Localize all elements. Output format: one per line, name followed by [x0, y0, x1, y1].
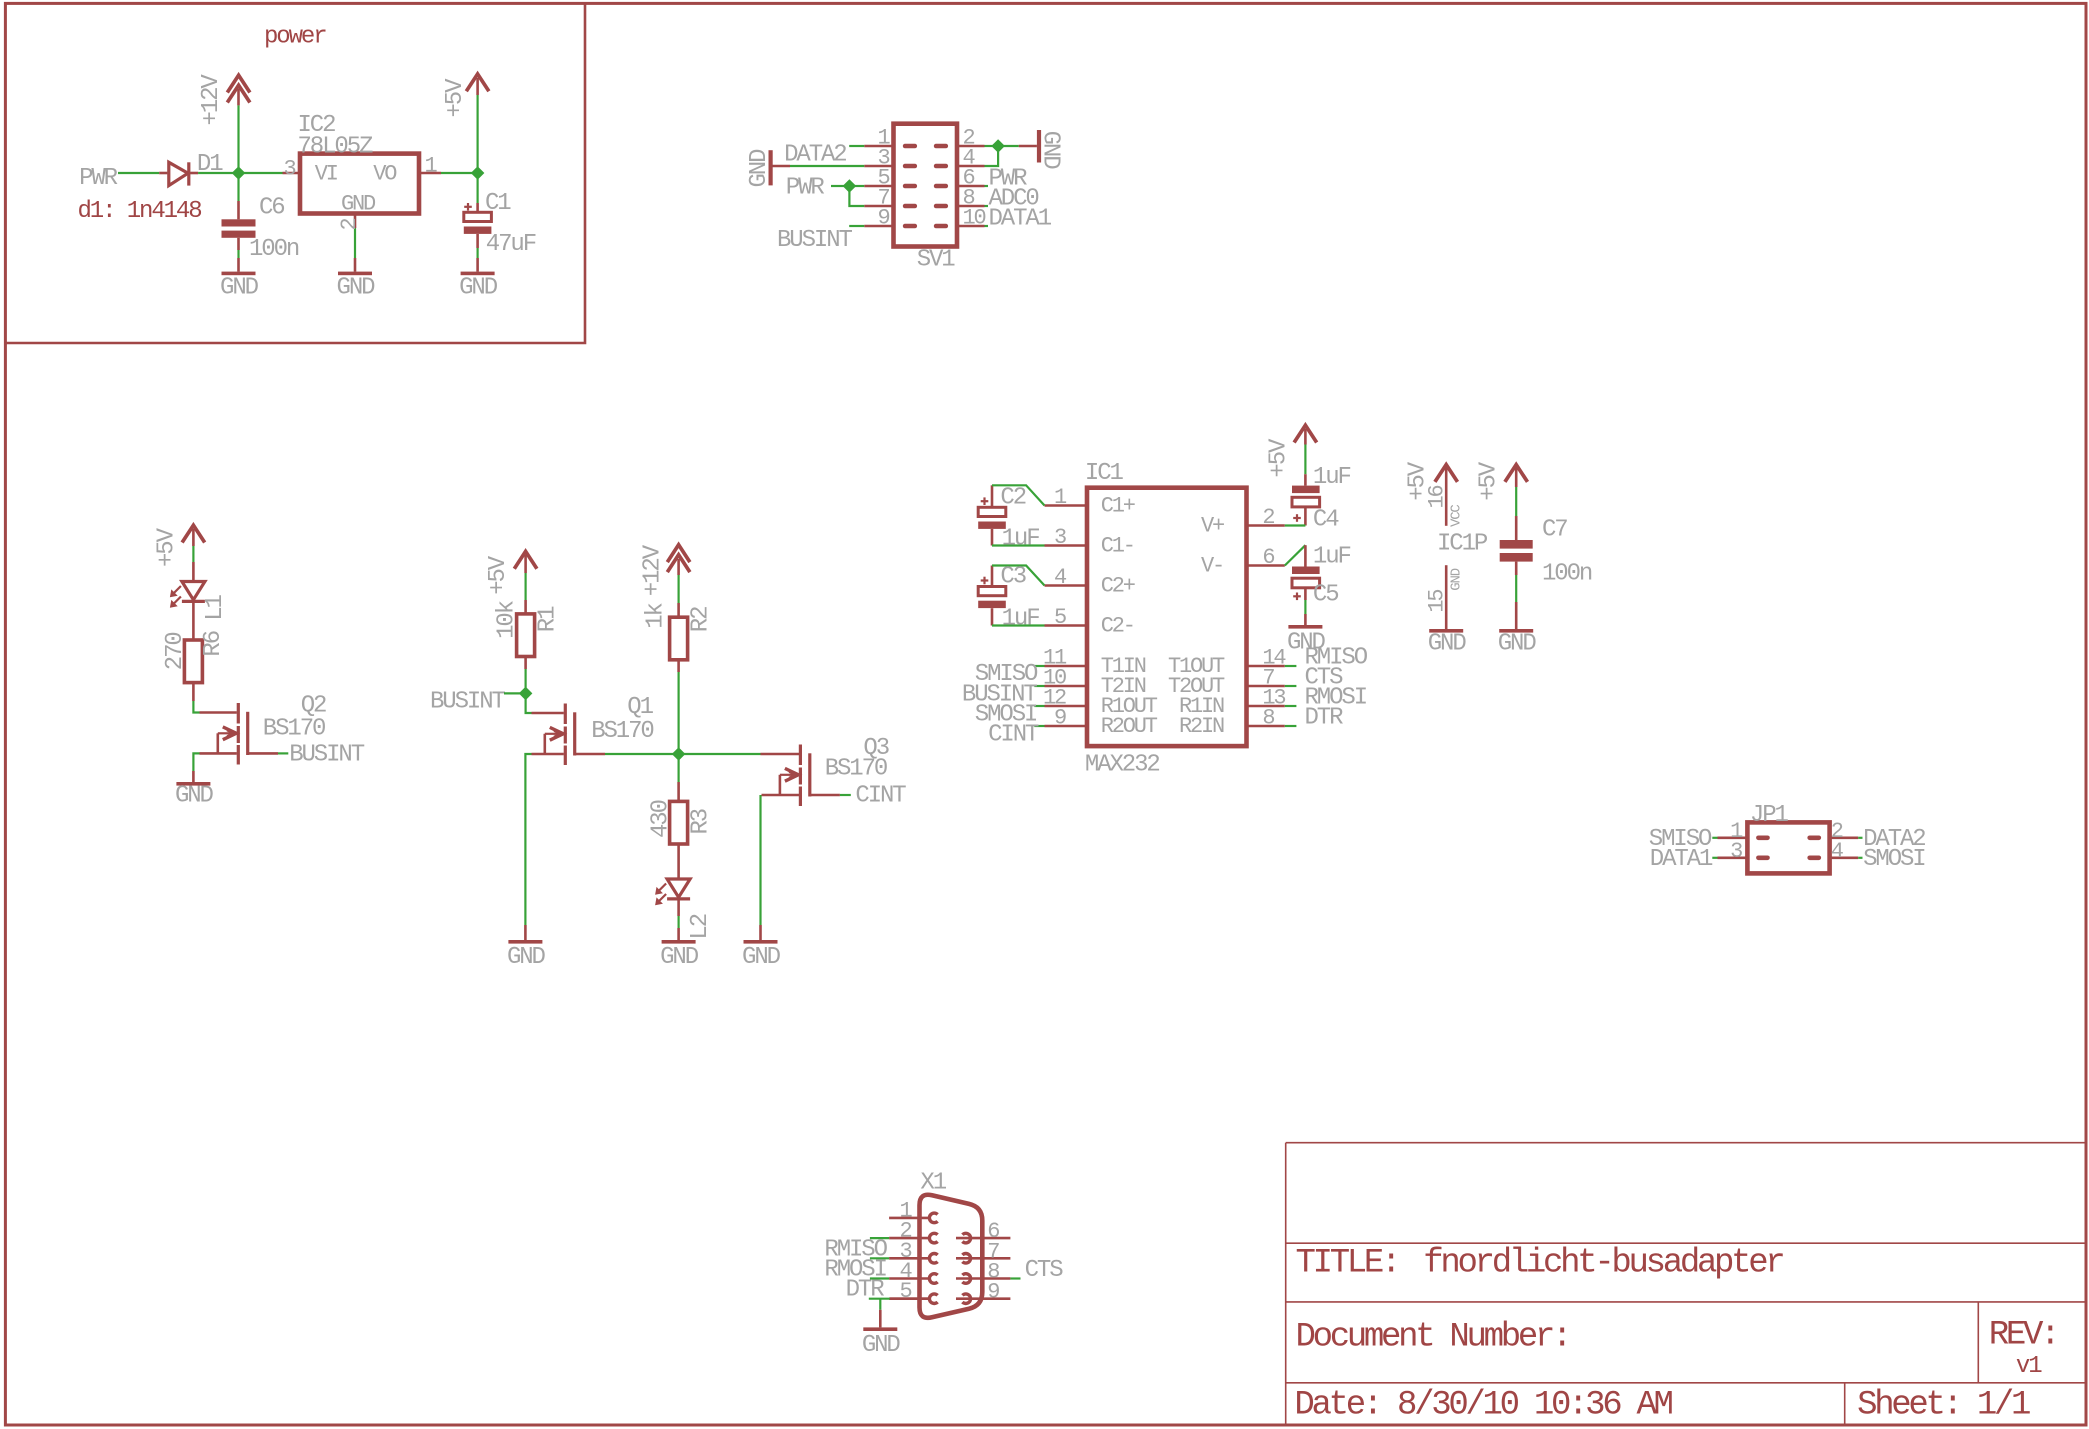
SV1 right pin stubs 2 4 6 8 10	[957, 145, 985, 148]
svg-text:CINT: CINT	[855, 783, 906, 810]
svg-text:IC1: IC1	[1085, 460, 1124, 487]
wire junction down to R3	[677, 759, 679, 782]
svg-text:+12V: +12V	[198, 74, 225, 126]
connector JP1 box	[1747, 822, 1829, 873]
capacitor C2	[981, 500, 989, 502]
op-amp IC2 78L05Z regulator box	[300, 154, 419, 214]
X1 right pin stubs 6-9	[956, 1237, 1010, 1240]
svg-text:GND: GND	[1448, 568, 1464, 590]
Q2 gate wire to BUSINT	[248, 752, 278, 755]
JP1 right stubs pins 2 4	[1830, 836, 1859, 839]
svg-text:9: 9	[1054, 706, 1066, 731]
svg-text:6: 6	[1262, 545, 1274, 570]
wire R2 to junction	[677, 660, 680, 672]
X1 left pin stubs 1-5	[889, 1217, 928, 1220]
wire PWR to junction	[831, 185, 845, 187]
svg-text:BS170: BS170	[591, 718, 653, 745]
svg-text:GND: GND	[1498, 631, 1537, 658]
power section box	[5, 3, 585, 343]
net PWR right	[985, 185, 989, 187]
X1 pin5 wire to GND	[869, 1298, 890, 1300]
svg-text:9: 9	[877, 206, 889, 231]
ground below Q2	[176, 782, 210, 786]
wire L1 to R6	[192, 602, 195, 640]
IC1 right pin stubs	[1247, 524, 1285, 527]
svg-text:3: 3	[1054, 525, 1066, 550]
svg-text:R2OUT: R2OUT	[1101, 714, 1158, 739]
svg-text:3: 3	[1730, 839, 1742, 864]
ground right of SV1	[1019, 145, 1037, 148]
net DATA1 right	[985, 225, 989, 227]
svg-text:10: 10	[963, 206, 986, 231]
svg-text:C1+: C1+	[1101, 494, 1135, 519]
capacitor C7 100n	[1500, 540, 1533, 549]
net ADC0	[985, 205, 989, 207]
connector SV1 box	[894, 124, 958, 247]
wire junction to Q3	[683, 753, 760, 755]
wire junction down to pin7	[849, 191, 864, 206]
ground below C6	[237, 250, 239, 258]
svg-text:GND: GND	[459, 275, 498, 302]
X1 right contacts	[962, 1233, 970, 1243]
svg-text:MAX232: MAX232	[1085, 752, 1160, 779]
X1 left contacts	[929, 1213, 937, 1223]
svg-text:TITLE:: TITLE:	[1296, 1245, 1399, 1283]
ground below C7	[1499, 629, 1533, 633]
svg-text:GND: GND	[337, 275, 376, 302]
svg-text:BUSINT: BUSINT	[430, 688, 506, 715]
title block frame	[1285, 1143, 1287, 1424]
supply +5V at L1	[182, 525, 205, 542]
svg-text:+5V: +5V	[1265, 438, 1292, 478]
svg-text:5: 5	[1054, 605, 1066, 630]
svg-text:CINT: CINT	[988, 722, 1039, 749]
svg-text:R6: R6	[200, 631, 227, 656]
svg-text:CTS: CTS	[1025, 1257, 1064, 1284]
capacitor C5	[1304, 545, 1307, 566]
wire BUSINT to pin9	[849, 225, 864, 227]
pin 1	[419, 172, 441, 175]
ground below Q3	[744, 940, 778, 944]
svg-text:GND: GND	[742, 944, 781, 971]
svg-text:100n: 100n	[249, 236, 299, 263]
svg-text:8: 8	[1262, 706, 1274, 731]
wire junction to Q1 drain	[526, 698, 532, 713]
svg-text:Document Number:: Document Number:	[1296, 1318, 1570, 1356]
ground below L2	[662, 940, 696, 944]
svg-text:270: 270	[162, 633, 189, 671]
svg-text:BS170: BS170	[263, 715, 325, 742]
svg-text:BS170: BS170	[825, 756, 887, 783]
svg-text:JP1: JP1	[1750, 802, 1789, 829]
svg-text:10k: 10k	[493, 600, 520, 639]
svg-text:BUSINT: BUSINT	[777, 227, 853, 254]
junction +5V node	[471, 166, 485, 180]
resistor R1 10k	[517, 614, 535, 657]
svg-text:REV:: REV:	[1989, 1316, 2057, 1354]
wire L2 to GND	[677, 899, 680, 916]
supply +5V power	[476, 78, 479, 95]
JP1 green wire tips	[1712, 837, 1717, 839]
wire pin 6 diagonal to C5	[1285, 545, 1306, 565]
diode D1	[159, 172, 167, 175]
svg-text:SV1: SV1	[917, 247, 956, 274]
supply +5V at C4	[1294, 425, 1317, 442]
IC1P GND pin 15	[1445, 565, 1448, 629]
svg-text:VCC: VCC	[1448, 505, 1464, 527]
net CTS at X1	[1010, 1277, 1020, 1279]
svg-text:GND: GND	[507, 944, 546, 971]
IC1P VCC pin 16 with +5V	[1435, 465, 1458, 482]
wire node to IC2 pin 3	[243, 172, 283, 174]
svg-text:5: 5	[899, 1279, 911, 1304]
svg-text:DTR: DTR	[1305, 705, 1344, 732]
svg-text:C2+: C2+	[1101, 574, 1135, 599]
svg-text:PWR: PWR	[79, 165, 118, 192]
svg-text:GND: GND	[1428, 631, 1467, 658]
wire R1 to junction	[524, 657, 527, 670]
wire BUSINT to junction	[504, 692, 521, 694]
svg-text:X1: X1	[920, 1170, 946, 1197]
svg-text:GND: GND	[1036, 131, 1063, 170]
resistor R6 270	[184, 640, 202, 683]
SV1 pin pads	[903, 144, 917, 149]
junction center node	[672, 747, 686, 761]
ground below Q1	[508, 940, 542, 944]
svg-text:C1: C1	[485, 190, 511, 217]
svg-text:9: 9	[987, 1280, 999, 1305]
supply +5V at C7	[1505, 465, 1528, 482]
svg-text:V-: V-	[1201, 554, 1223, 579]
svg-text:L1: L1	[202, 594, 229, 620]
junction +12V node	[232, 166, 246, 180]
svg-text:GND: GND	[746, 149, 773, 188]
svg-text:+5V: +5V	[442, 78, 469, 118]
svg-text:VI: VI	[315, 162, 338, 187]
svg-text:power: power	[264, 24, 326, 51]
resistor R2 1k	[670, 617, 688, 660]
svg-text:100n: 100n	[1542, 560, 1592, 587]
svg-text:L2: L2	[687, 914, 714, 939]
svg-text:+5V: +5V	[1475, 461, 1502, 501]
transistor Q1 BS170	[564, 704, 567, 725]
wire junction to pin5	[854, 185, 864, 187]
svg-text:2: 2	[1262, 505, 1274, 530]
svg-text:15: 15	[1424, 590, 1449, 613]
svg-text:1uF: 1uF	[1002, 605, 1040, 632]
IC1 left pin stubs	[1045, 504, 1088, 507]
IC IC1 MAX232 box	[1087, 488, 1247, 746]
svg-text:DATA1: DATA1	[989, 206, 1052, 233]
svg-text:GND: GND	[1287, 630, 1326, 657]
wire junction down to pin4	[985, 151, 999, 166]
svg-text:GND: GND	[660, 944, 699, 971]
svg-text:v1: v1	[2016, 1353, 2042, 1380]
wire C7 to GND	[1515, 562, 1518, 575]
junction PWR	[843, 179, 857, 193]
ground below X1	[863, 1327, 897, 1331]
svg-text:C3: C3	[1000, 564, 1025, 591]
svg-text:VO: VO	[373, 162, 397, 187]
svg-text:4: 4	[1831, 839, 1844, 864]
X1 green wires pins 2-4	[870, 1237, 889, 1239]
wire GND to pin3	[790, 165, 864, 167]
ground left of SV1	[768, 150, 772, 185]
Q3 gate wire to CINT	[810, 794, 840, 797]
svg-text:C1-: C1-	[1101, 534, 1134, 559]
ground below C5	[1288, 625, 1322, 629]
svg-text:1uF: 1uF	[1002, 525, 1040, 552]
wire pin2 to GND junction	[985, 145, 994, 147]
svg-text:16: 16	[1424, 485, 1449, 508]
svg-text:Sheet: 1/1: Sheet: 1/1	[1857, 1387, 2030, 1425]
svg-text:C7: C7	[1542, 516, 1567, 543]
svg-text:SMOSI: SMOSI	[1863, 846, 1925, 873]
svg-text:47uF: 47uF	[486, 231, 536, 258]
JP1 pin pads	[1756, 836, 1770, 841]
wire C4 to pin 2	[1304, 508, 1307, 526]
svg-text:DATA1: DATA1	[1650, 846, 1713, 873]
svg-text:PWR: PWR	[786, 175, 825, 202]
svg-text:+5V: +5V	[154, 527, 181, 567]
capacitor C3	[981, 579, 989, 581]
wire D1 to node	[198, 172, 234, 174]
wire DATA2 to pin1	[849, 145, 864, 147]
LED L1	[182, 582, 205, 600]
capacitor C6	[237, 178, 239, 201]
Q3 source wire to GND	[762, 794, 800, 797]
svg-text:78L05Z: 78L05Z	[298, 134, 374, 161]
LED L2	[667, 879, 690, 897]
svg-text:fnordlicht-busadapter: fnordlicht-busadapter	[1423, 1245, 1783, 1283]
svg-text:R1: R1	[534, 606, 561, 632]
svg-text:R3: R3	[687, 809, 714, 834]
svg-text:R2: R2	[687, 607, 714, 632]
JP1 left stubs pins 1 3	[1718, 836, 1748, 839]
IC1 right green stubs	[1285, 665, 1297, 667]
svg-text:1uF: 1uF	[1313, 544, 1351, 571]
svg-text:V+: V+	[1201, 514, 1224, 539]
svg-text:R2IN: R2IN	[1179, 714, 1224, 739]
Q2 source wire to GND	[200, 752, 237, 755]
SV1 left pin stubs 1 3 5 7 9	[864, 145, 893, 148]
svg-text:1k: 1k	[643, 602, 670, 628]
wire C5 to GND	[1304, 588, 1307, 600]
junction right GND	[991, 139, 1005, 153]
svg-text:DATA2: DATA2	[784, 142, 846, 169]
svg-text:C5: C5	[1313, 581, 1338, 608]
svg-text:GND: GND	[341, 192, 376, 217]
resistor R3 430	[670, 801, 688, 844]
ground below C1	[477, 248, 479, 258]
IC2 GND pin 2	[354, 214, 357, 229]
svg-text:Q1: Q1	[627, 694, 653, 721]
svg-text:Date: 8/30/10 10:36 AM: Date: 8/30/10 10:36 AM	[1294, 1387, 1672, 1425]
svg-text:BUSINT: BUSINT	[289, 742, 365, 769]
wire R6 to Q2 drain	[192, 683, 195, 701]
svg-text:430: 430	[647, 800, 674, 838]
svg-text:GND: GND	[220, 275, 259, 302]
svg-text:C4: C4	[1313, 506, 1339, 533]
svg-text:+5V: +5V	[485, 555, 512, 595]
Q1 gate wire to main node	[575, 753, 605, 756]
svg-text:C6: C6	[259, 195, 284, 222]
wire IC2 VO to +5V node	[441, 172, 473, 174]
svg-text:GND: GND	[862, 1332, 901, 1359]
capacitor C1 47uF	[477, 178, 479, 203]
junction BUSINT	[519, 687, 533, 701]
svg-text:IC1P: IC1P	[1437, 530, 1488, 557]
svg-text:1uF: 1uF	[1313, 464, 1351, 491]
svg-text:d1: 1n4148: d1: 1n4148	[78, 198, 202, 225]
svg-text:1: 1	[425, 154, 438, 179]
Q1 source wire to GND	[532, 753, 564, 756]
svg-text:3: 3	[283, 157, 295, 182]
supply +5V at R1	[514, 551, 537, 568]
IC1 lower-left green stubs	[1034, 665, 1044, 667]
supply +12V	[237, 89, 240, 105]
ground below IC1P	[1429, 629, 1463, 633]
supply +12V at R2	[667, 545, 690, 562]
svg-text:2: 2	[337, 219, 362, 231]
wire PWR to D1	[118, 172, 159, 174]
wire junction to GND symbol	[1003, 145, 1019, 147]
transistor Q2 BS170	[237, 703, 240, 724]
svg-text:C2-: C2-	[1101, 614, 1134, 639]
capacitor C4	[1292, 486, 1320, 494]
wire R3 to L2	[677, 844, 680, 879]
svg-text:GND: GND	[175, 783, 214, 810]
transistor Q3 BS170	[799, 745, 802, 766]
svg-text:C2: C2	[1000, 485, 1025, 512]
ground below IC2	[338, 272, 372, 276]
svg-text:+12V: +12V	[639, 544, 666, 596]
